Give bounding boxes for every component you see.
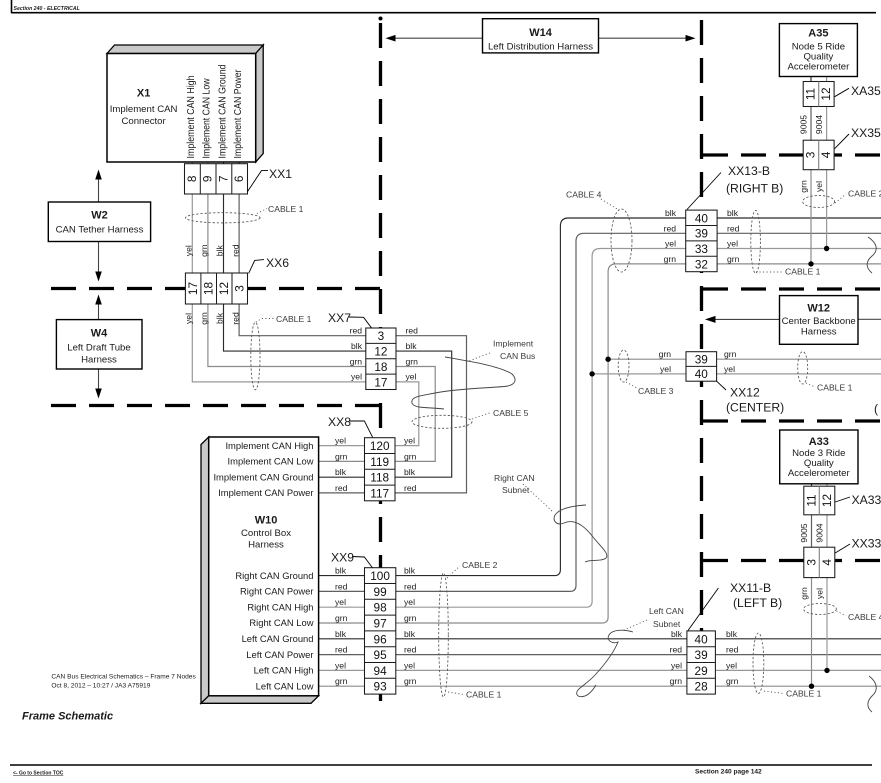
wire red W10 to XX9 pin95 <box>319 654 365 656</box>
svg-text:grn: grn <box>335 451 348 461</box>
svg-text:yel: yel <box>665 239 676 249</box>
wire yel subnet to XX12 pin40 <box>592 373 686 375</box>
svg-text:(CENTER): (CENTER) <box>726 401 784 415</box>
svg-text:4: 4 <box>820 559 834 566</box>
svg-text:3: 3 <box>804 151 818 158</box>
svg-text:Section 240 - ELECTRICAL: Section 240 - ELECTRICAL <box>14 6 80 12</box>
svg-text:<- Go to Section TOC: <- Go to Section TOC <box>13 771 64 777</box>
svg-text:Oct 8, 2012 – 10:27 / JA3 A: Oct 8, 2012 – 10:27 / JA3 A75919 <box>51 683 150 690</box>
connector XX12 <box>686 352 717 382</box>
svg-text:8: 8 <box>185 175 199 182</box>
svg-text:grn: grn <box>664 254 677 264</box>
svg-text:red: red <box>726 645 739 655</box>
wire grn X1 pin9 to XX6 pin18 <box>207 162 209 273</box>
svg-text:118: 118 <box>370 471 389 485</box>
arrowhead W4 down <box>95 389 102 399</box>
node yel junction A35 <box>824 246 829 251</box>
wire blk XX13-B pin40 right to page edge <box>717 217 881 219</box>
svg-text:yel: yel <box>404 436 415 446</box>
connector XX6 <box>185 273 247 304</box>
svg-text:XX9: XX9 <box>331 551 354 565</box>
wire yel XX7 pin17 to XX8 pin120 <box>395 382 419 446</box>
leader XA35 <box>835 88 849 96</box>
wire color labels XX6-XX7 bundle <box>184 312 241 325</box>
frame boundary: vertical dashed line A (center) <box>379 17 383 21</box>
svg-text:(LEFT B): (LEFT B) <box>733 596 782 610</box>
svg-text:red: red <box>664 223 677 233</box>
svg-text:blk: blk <box>215 312 225 324</box>
harness W10 3D box <box>201 437 319 703</box>
wire blk XX11-B pin40 right to page edge <box>715 638 881 640</box>
svg-text:97: 97 <box>374 617 387 631</box>
leader XX6 <box>249 260 264 274</box>
leader XX12 <box>717 381 726 390</box>
wire yel XX33 pin4 down to yel bus <box>826 578 828 671</box>
wire stub A33 to XA33 pin11 <box>811 484 813 486</box>
node yel junction at XX12 branch <box>589 371 594 376</box>
leader XX8 <box>349 421 373 437</box>
svg-text:120: 120 <box>370 439 390 453</box>
svg-text:W4: W4 <box>91 328 108 340</box>
svg-text:yel: yel <box>335 436 346 446</box>
svg-text:Implement CAN High: Implement CAN High <box>225 440 313 451</box>
svg-text:Left CAN Low: Left CAN Low <box>256 680 314 691</box>
frame boundary: right horizontal dashed 1 <box>703 153 881 156</box>
svg-text:Right CAN High: Right CAN High <box>247 601 313 612</box>
cable 2 ellipse below XX35 <box>803 196 835 208</box>
wire grn W10 to XX8 pin119 <box>319 460 365 462</box>
svg-text:grn: grn <box>659 349 672 359</box>
svg-text:A35: A35 <box>808 28 828 40</box>
arrowhead W14 right <box>686 35 696 42</box>
svg-text:Frame Schematic: Frame Schematic <box>22 711 113 723</box>
svg-text:grn: grn <box>404 676 417 686</box>
svg-text:grn: grn <box>335 613 348 623</box>
svg-text:Accelerometer: Accelerometer <box>788 468 851 479</box>
arrowhead W2 down <box>95 272 102 282</box>
wire grn XX7 pin18 to XX8 pin119 <box>395 367 435 462</box>
connector XX35 <box>803 140 834 170</box>
svg-text:Implement CAN Low: Implement CAN Low <box>228 456 314 467</box>
svg-text:40: 40 <box>695 211 709 225</box>
harness W14 <box>483 19 599 53</box>
frame boundary: right horizontal dashed 4 <box>703 559 881 562</box>
svg-text:17: 17 <box>186 282 200 295</box>
svg-text:XX7: XX7 <box>328 311 351 325</box>
wire W12 right stub to page edge <box>858 318 881 320</box>
svg-text:Implement CAN Power: Implement CAN Power <box>233 69 244 159</box>
wire red XX9 pin95 to XX11-B pin39 <box>396 654 687 656</box>
wire blk XX6 pin12 to XX7 pin12 <box>224 304 366 351</box>
svg-text:12: 12 <box>374 345 387 359</box>
cable 1 ellipse right of XX13-B <box>751 210 761 273</box>
svg-text:red: red <box>335 581 348 591</box>
svg-text:red: red <box>404 645 417 655</box>
svg-text:CABLE 1: CABLE 1 <box>785 267 821 277</box>
svg-text:Left CAN Ground: Left CAN Ground <box>242 633 314 644</box>
frame boundary: left horizontal dashed 2 <box>51 404 382 407</box>
wire yel XX6 pin17 to XX7 pin17 <box>192 304 365 382</box>
svg-text:W14: W14 <box>529 27 553 39</box>
wire color labels XX11-B right <box>726 629 739 686</box>
wire yel W10 to XX8 pin120 <box>319 445 365 447</box>
svg-text:yel: yel <box>727 239 738 249</box>
svg-text:CABLE 5: CABLE 5 <box>493 408 529 418</box>
svg-text:yel: yel <box>351 372 362 382</box>
svg-text:CABLE 1: CABLE 1 <box>268 204 304 214</box>
svg-text:Subnet: Subnet <box>653 619 681 629</box>
svg-text:Right CAN Low: Right CAN Low <box>249 617 313 628</box>
W4 double arrow <box>98 297 100 396</box>
svg-text:Left CAN: Left CAN <box>649 606 684 616</box>
svg-text:119: 119 <box>370 455 389 469</box>
svg-text:18: 18 <box>202 282 216 296</box>
svg-text:grn: grn <box>199 312 209 325</box>
wire yel X1 pin8 to XX6 pin17 <box>191 162 193 273</box>
node yel junction A33 <box>824 668 829 673</box>
accelerometer A33 <box>780 430 858 484</box>
connector XX9 <box>365 568 396 694</box>
twist squiggle right edge bottom <box>868 676 876 712</box>
wire labels grn yel below XX33 <box>799 587 825 600</box>
leader XX11-B <box>688 588 718 631</box>
wire W12 arrow to frame line <box>707 318 780 320</box>
wire yel XX9 pin94 to XX11-B pin29 <box>396 669 687 671</box>
svg-text:blk: blk <box>335 629 347 639</box>
svg-text:red: red <box>230 312 240 325</box>
frame boundary: right horizontal dashed 3 <box>703 419 881 422</box>
connector XX1 <box>185 164 248 194</box>
wire red W10 to XX8 pin117 <box>319 492 365 494</box>
svg-text:yel: yel <box>404 660 415 670</box>
leader XX35 <box>835 134 849 149</box>
svg-text:grn: grn <box>404 613 417 623</box>
svg-text:CABLE 1: CABLE 1 <box>466 690 502 700</box>
wire yel W10 to XX9 pin98 <box>319 606 365 608</box>
svg-text:9004: 9004 <box>815 523 825 542</box>
wire labels grn yel below XX35 <box>798 180 824 193</box>
frame boundary: vertical dashed line B (right) <box>700 20 703 697</box>
node grn junction A33 <box>809 684 814 689</box>
svg-text:Section 240 page 142: Section 240 page 142 <box>695 769 762 776</box>
svg-text:blk: blk <box>665 208 677 218</box>
svg-text:blk: blk <box>335 467 347 477</box>
svg-text:40: 40 <box>695 632 709 646</box>
svg-text:blk: blk <box>351 341 363 351</box>
svg-text:Implement CAN Low: Implement CAN Low <box>202 78 213 159</box>
wire yel XX11-B pin29 right to page edge <box>715 669 881 671</box>
wire grn XX9 pin93 to XX11-B pin28 <box>396 685 687 687</box>
svg-text:Control Box: Control Box <box>241 528 291 539</box>
wire color labels XX12 left <box>659 349 672 374</box>
wire yel W10 to XX9 pin94 <box>319 669 365 671</box>
svg-text:grn: grn <box>670 676 683 686</box>
node grn junction at XX12 branch <box>605 357 610 362</box>
left CAN subnet squiggle <box>577 630 633 696</box>
svg-text:grn: grn <box>404 451 417 461</box>
svg-text:yel: yel <box>671 660 682 670</box>
svg-text:94: 94 <box>374 664 388 678</box>
wire red XX9 pin99 to XX13-B pin39 <box>396 233 686 591</box>
wire blk XX9 pin100 to XX13-B pin40 <box>396 218 686 576</box>
wire labels 9005 9004 A35 <box>798 115 824 134</box>
svg-text:CAN Bus: CAN Bus <box>500 351 535 361</box>
wire grn XX13-B pin32 right to page edge <box>717 263 881 265</box>
svg-text:39: 39 <box>695 648 708 662</box>
svg-text:grn: grn <box>199 244 209 257</box>
svg-text:red: red <box>335 645 348 655</box>
right CAN subnet squiggle <box>554 505 607 562</box>
svg-text:Implement CAN Ground: Implement CAN Ground <box>217 65 228 159</box>
wire color labels XX8 left <box>335 436 348 493</box>
svg-text:6: 6 <box>232 175 246 182</box>
connector X1 3D box <box>107 45 263 162</box>
svg-text:Harness: Harness <box>81 355 117 366</box>
wire color labels XX12 right <box>724 349 737 374</box>
connector XX7 <box>366 328 396 390</box>
wire red X1 pin6 to XX6 pin3 <box>238 162 240 273</box>
svg-text:CABLE 3: CABLE 3 <box>638 386 674 396</box>
wire red XX6 pin3 to XX7 pin3 <box>239 304 366 336</box>
svg-text:Left CAN Power: Left CAN Power <box>246 649 313 660</box>
svg-text:yel: yel <box>814 181 824 192</box>
cable 1 ellipse XX1-XX6 <box>186 213 261 223</box>
wire color labels XX13-B left <box>664 208 677 264</box>
svg-text:XX1: XX1 <box>269 167 292 181</box>
svg-text:yel: yel <box>404 597 415 607</box>
wire color labels XX9 left <box>335 566 348 687</box>
svg-text:12: 12 <box>819 87 833 100</box>
svg-text:blk: blk <box>215 245 225 257</box>
svg-text:98: 98 <box>374 601 388 615</box>
svg-text:W2: W2 <box>91 210 108 222</box>
wire grn XX11-B pin28 right to page edge <box>715 685 881 687</box>
svg-text:33: 33 <box>695 242 709 256</box>
svg-text:4: 4 <box>819 151 833 158</box>
svg-text:grn: grn <box>350 356 363 366</box>
svg-text:12: 12 <box>820 494 834 507</box>
svg-text:99: 99 <box>374 585 387 599</box>
svg-text:95: 95 <box>374 648 388 662</box>
svg-text:Implement: Implement <box>493 339 534 349</box>
leader XX7 <box>349 317 372 328</box>
svg-text:9004: 9004 <box>814 115 824 134</box>
svg-text:CABLE 1: CABLE 1 <box>817 383 853 393</box>
svg-text:yel: yel <box>726 660 737 670</box>
svg-text:9: 9 <box>201 176 215 183</box>
wire grn XX35 pin3 down to grn bus <box>810 170 812 264</box>
wire color labels XX7 left <box>350 326 363 382</box>
svg-text:17: 17 <box>374 375 387 389</box>
svg-text:red: red <box>350 326 363 336</box>
svg-text:blk: blk <box>404 467 416 477</box>
svg-text:100: 100 <box>370 569 390 583</box>
svg-text:grn: grn <box>724 349 737 359</box>
svg-text:red: red <box>404 483 417 493</box>
svg-text:red: red <box>230 244 240 257</box>
harness W2 <box>48 202 150 242</box>
svg-text:Harness: Harness <box>248 540 284 551</box>
svg-text:Implement CAN: Implement CAN <box>110 104 178 115</box>
svg-text:11: 11 <box>804 88 818 100</box>
svg-text:red: red <box>727 223 740 233</box>
connector XA33 <box>804 486 835 515</box>
svg-text:A33: A33 <box>809 436 829 448</box>
leader XA33 <box>835 497 850 502</box>
svg-text:Right CAN Power: Right CAN Power <box>240 586 313 597</box>
svg-text:yel: yel <box>815 588 825 599</box>
svg-text:117: 117 <box>370 486 389 500</box>
svg-text:18: 18 <box>374 360 388 374</box>
leader XX33 <box>835 544 850 553</box>
svg-text:Right CAN Ground: Right CAN Ground <box>235 570 313 581</box>
svg-text:Connector: Connector <box>121 116 166 127</box>
svg-text:9005: 9005 <box>798 115 808 134</box>
svg-text:Implement CAN High: Implement CAN High <box>186 76 197 159</box>
svg-text:yel: yel <box>724 364 735 374</box>
cable 5 ellipse <box>412 415 472 428</box>
svg-text:XX11-B: XX11-B <box>730 581 771 595</box>
svg-text:CABLE 4: CABLE 4 <box>566 190 602 200</box>
svg-text:grn: grn <box>727 254 740 264</box>
wire blk XX9 pin96 to XX11-B pin40 <box>396 638 687 640</box>
wire 9005 XA33 to XX33 <box>811 515 813 547</box>
wire grn XX9 pin97 to XX13-B pin32 <box>396 264 686 623</box>
svg-text:CABLE 1: CABLE 1 <box>276 314 312 324</box>
W2 double arrow <box>98 172 100 279</box>
svg-text:Left Distribution Harness: Left Distribution Harness <box>488 41 593 52</box>
svg-text:(RIGHT B): (RIGHT B) <box>726 182 783 196</box>
wire red XX11-B pin39 right to page edge <box>715 654 881 656</box>
svg-text:XA33: XA33 <box>852 493 881 507</box>
svg-text:Accelerometer: Accelerometer <box>787 62 850 73</box>
cable 1 ellipse right of XX11-B <box>753 633 764 694</box>
svg-text:12: 12 <box>217 282 231 295</box>
leader XX13-B <box>687 173 721 210</box>
wire color labels XX1-XX6 bundle <box>184 244 241 257</box>
wire blk W10 to XX9 pin96 <box>319 638 365 640</box>
connector XA35 <box>803 82 834 107</box>
svg-text:32: 32 <box>695 258 708 272</box>
svg-text:Left Draft Tube: Left Draft Tube <box>67 343 130 354</box>
wire 9004 XA33 to XX33 <box>826 515 828 547</box>
connector XX13-B <box>686 210 717 272</box>
leader XX9 <box>352 557 373 569</box>
svg-text:red: red <box>404 581 417 591</box>
svg-text:XX8: XX8 <box>328 415 351 429</box>
svg-text:W12: W12 <box>807 303 830 315</box>
svg-text:grn: grn <box>798 180 808 193</box>
svg-text:29: 29 <box>695 664 708 678</box>
svg-text:red: red <box>335 483 348 493</box>
arrowhead W12 left <box>705 316 716 323</box>
cable 2 ellipse near XX9 <box>439 573 449 697</box>
wire grn W10 to XX9 pin97 <box>319 622 365 624</box>
arrowhead W4 up <box>95 295 102 305</box>
svg-text:9005: 9005 <box>799 523 809 542</box>
svg-text:XX33: XX33 <box>852 537 881 551</box>
accelerometer A35 <box>779 24 857 77</box>
wire yel XX9 pin98 to XX13-B pin33 <box>396 249 686 608</box>
svg-text:grn: grn <box>799 587 809 600</box>
wire blk X1 pin7 to XX6 pin12 <box>223 162 225 273</box>
wire yel XX35 pin4 down to yel bus <box>826 170 828 249</box>
svg-text:39: 39 <box>695 353 708 367</box>
svg-text:yel: yel <box>184 313 194 324</box>
svg-text:grn: grn <box>335 676 348 686</box>
svg-text:3: 3 <box>378 329 385 343</box>
wire stub A35 to XA35 pin12 <box>826 77 828 82</box>
implement CAN bus squiggle <box>412 357 515 409</box>
wire color labels XX9 right <box>404 566 417 687</box>
svg-text:grn: grn <box>406 356 419 366</box>
svg-text:yel: yel <box>406 372 417 382</box>
twist squiggle right edge top <box>867 237 876 273</box>
svg-text:CABLE 2: CABLE 2 <box>462 560 498 570</box>
svg-text:Center Backbone: Center Backbone <box>782 316 856 327</box>
svg-text:CABLE 1: CABLE 1 <box>786 689 822 699</box>
wire blk XX7 pin12 to XX8 pin118 <box>395 351 452 477</box>
svg-text:XA35: XA35 <box>851 84 881 98</box>
wire labels 9005 9004 A33 <box>799 523 825 542</box>
leader XX1 <box>247 171 268 192</box>
header rule <box>11 0 13 13</box>
wire blk W10 to XX8 pin118 <box>319 476 365 478</box>
wire color labels XX7 right <box>406 326 419 382</box>
svg-text:93: 93 <box>374 680 388 694</box>
svg-text:yel: yel <box>335 597 346 607</box>
cable 4 ellipse below XX33 <box>804 604 837 615</box>
svg-text:W10: W10 <box>255 514 278 526</box>
frame boundary: right horizontal dashed 2 <box>703 287 881 290</box>
svg-text:XX13-B: XX13-B <box>728 164 770 178</box>
svg-text:40: 40 <box>695 367 709 381</box>
svg-text:blk: blk <box>406 341 418 351</box>
svg-text:Harness: Harness <box>801 327 837 338</box>
wire red XX13-B pin39 right to page edge <box>717 232 881 234</box>
svg-text:XX35: XX35 <box>851 126 881 140</box>
node grn junction A35 <box>808 261 813 266</box>
svg-text:blk: blk <box>404 629 416 639</box>
svg-text:Implement CAN Power: Implement CAN Power <box>218 487 313 498</box>
wire grn subnet to XX12 pin39 <box>608 358 686 360</box>
svg-text:(: ( <box>874 402 878 416</box>
wire red XX7 pin3 to XX8 pin117 <box>395 336 467 493</box>
connector XX8 <box>365 438 396 501</box>
svg-text:28: 28 <box>695 680 709 694</box>
connector XX33 <box>804 547 835 577</box>
wire red W10 to XX9 pin99 <box>319 590 365 592</box>
harness W4 <box>56 320 142 369</box>
wire color labels XX8 right <box>404 436 417 493</box>
svg-text:blk: blk <box>726 629 738 639</box>
svg-text:CABLE 4: CABLE 4 <box>848 612 881 622</box>
wire 9004 XA35 to XX35 <box>826 107 828 141</box>
svg-text:CAN Bus Electrical Schematics: CAN Bus Electrical Schematics – Frame 7 … <box>51 674 196 681</box>
wire grn XX33 pin3 down to grn bus <box>811 578 813 687</box>
W14 double arrow <box>388 37 694 39</box>
svg-text:yel: yel <box>660 364 671 374</box>
wire grn XX12 pin39 right to page edge <box>717 358 881 360</box>
arrowhead W2 up <box>95 170 102 180</box>
svg-text:11: 11 <box>804 494 818 506</box>
svg-text:grn: grn <box>726 676 739 686</box>
wire color labels XX11-B left <box>670 629 683 686</box>
harness W12 <box>780 296 859 345</box>
frame boundary: left horizontal dashed 1 <box>51 287 382 290</box>
svg-text:blk: blk <box>727 208 739 218</box>
svg-text:red: red <box>406 326 419 336</box>
